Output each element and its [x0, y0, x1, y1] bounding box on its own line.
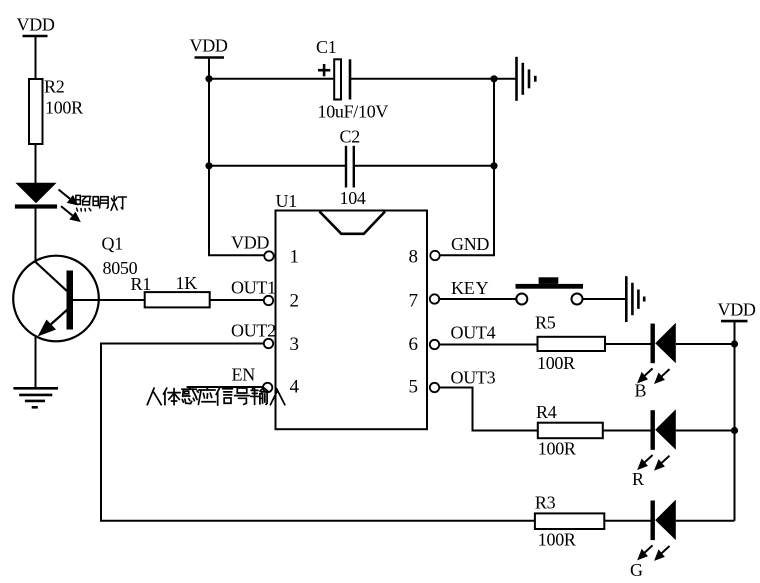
svg-text:B: B	[635, 381, 647, 401]
resistor R3	[535, 493, 604, 550]
transistor Q1 8050	[13, 234, 137, 342]
svg-text:Q1: Q1	[102, 234, 123, 254]
wire pin6 to R5	[440, 344, 538, 346]
svg-text:R2: R2	[44, 77, 64, 97]
light arrows G	[639, 545, 670, 559]
svg-text:OUT2: OUT2	[231, 321, 276, 341]
svg-text:8: 8	[409, 247, 419, 268]
LED G	[651, 500, 676, 540]
wire R5 to LED B	[605, 343, 651, 345]
wire line2 right segment	[354, 165, 494, 167]
LED lamp (illumination LED)	[15, 183, 57, 209]
wire R1 to pin2	[210, 299, 263, 301]
LED B	[651, 323, 676, 364]
ground (top right, rotated)	[494, 57, 535, 101]
resistor R2	[29, 77, 83, 145]
wire EN (pin4)	[187, 386, 263, 388]
light arrows (lamp)	[59, 190, 80, 221]
pin 6	[409, 334, 440, 355]
svg-text:C1: C1	[316, 37, 336, 57]
pin 4	[263, 377, 300, 398]
light arrows B	[639, 368, 670, 382]
power symbol VDD (right)	[718, 300, 756, 322]
resistor R4	[536, 402, 603, 459]
svg-text:5: 5	[409, 377, 419, 398]
wire Q1 base to R1	[73, 299, 146, 301]
svg-text:OUT4: OUT4	[451, 323, 496, 343]
pin 1	[264, 247, 299, 268]
svg-text:4: 4	[290, 377, 300, 398]
label 人体感应信号输入	[147, 387, 285, 405]
ground (key, rotated)	[626, 276, 644, 322]
svg-text:VDD: VDD	[718, 300, 756, 320]
svg-text:VDD: VDD	[231, 233, 269, 253]
power symbol VDD (left)	[17, 15, 55, 37]
wire button to ground	[583, 298, 627, 300]
svg-text:3: 3	[290, 334, 300, 355]
junction dot B row	[731, 340, 738, 347]
svg-text:KE Y: KE Y	[451, 278, 489, 298]
svg-text:100R: 100R	[45, 98, 83, 118]
wire line1 right segment (C1 to right rail)	[350, 78, 494, 80]
wire pin5 OUT3 to R4	[440, 388, 538, 431]
svg-text:104: 104	[340, 188, 366, 208]
IC U1 body	[276, 191, 428, 429]
svg-text:OUT1: OUT1	[231, 278, 276, 298]
svg-text:10uF/10V: 10uF/10V	[318, 102, 389, 122]
svg-text:1: 1	[290, 247, 300, 268]
svg-text:VDD: VDD	[17, 15, 55, 35]
capacitor C2 104	[340, 127, 366, 209]
wire line2 left segment (to C2)	[209, 165, 346, 167]
junction dot line2 left	[205, 162, 212, 169]
resistor R1	[131, 273, 210, 307]
svg-text:100R: 100R	[538, 530, 576, 550]
svg-text:GND: GND	[451, 234, 489, 254]
svg-text:R1: R1	[131, 274, 151, 294]
wire VDD rail right	[734, 321, 736, 521]
pin 5	[409, 377, 440, 398]
wire pin3 OUT2 long run to R3	[101, 344, 535, 521]
wire line1 left segment (to C1)	[209, 78, 335, 80]
wire R2 to LED	[35, 144, 37, 183]
wire R3 to LED G	[604, 520, 651, 522]
ground (below Q1)	[13, 388, 58, 407]
wire VDD stem to line1	[208, 58, 210, 79]
svg-text:G: G	[630, 560, 643, 580]
svg-text:R5: R5	[535, 313, 556, 333]
svg-text:U1: U1	[276, 191, 297, 211]
wire LED R to VDD rail	[676, 430, 735, 432]
svg-text:R4: R4	[536, 402, 557, 422]
svg-text:7: 7	[409, 291, 419, 312]
svg-text:EN: EN	[232, 365, 256, 385]
LED R	[651, 409, 676, 450]
svg-text:R3: R3	[535, 493, 556, 513]
junction dot R row	[731, 427, 738, 434]
wire pin7 to button	[440, 298, 516, 300]
wire LED B to VDD rail	[676, 343, 735, 345]
wire Q1 emitter to ground	[35, 335, 37, 389]
junction dot line1 left	[205, 75, 212, 82]
junction dot line1 right	[490, 75, 497, 82]
wire right rail down to pin8	[441, 79, 495, 256]
junction dot line2 right	[490, 162, 497, 169]
resistor R5	[535, 313, 605, 374]
svg-text:100R: 100R	[537, 353, 575, 373]
svg-text:VDD: VDD	[190, 36, 228, 56]
push button (KEY)	[516, 277, 584, 304]
svg-text:R: R	[632, 469, 644, 489]
pin 7	[409, 291, 440, 312]
pin 3	[264, 334, 299, 355]
wire LED G to VDD rail corner	[676, 520, 735, 522]
svg-text:OUT3: OUT3	[451, 368, 496, 388]
label 照明灯	[76, 195, 127, 211]
wire left rail down to pin1	[209, 79, 264, 256]
svg-text:2: 2	[290, 291, 300, 312]
wire VDD to R2	[35, 36, 37, 80]
light arrows R	[639, 455, 670, 469]
svg-text:100R: 100R	[538, 439, 576, 459]
pin 8	[409, 247, 440, 268]
svg-text:C2: C2	[340, 127, 360, 147]
svg-text:6: 6	[409, 334, 419, 355]
power symbol VDD (top middle)	[190, 36, 228, 58]
capacitor C1 10uF/10V	[316, 37, 388, 122]
wire LED to Q1 collector	[35, 209, 37, 264]
svg-text:1K: 1K	[176, 273, 198, 293]
pin 2	[264, 291, 299, 312]
wire R4 to LED R	[603, 430, 651, 432]
